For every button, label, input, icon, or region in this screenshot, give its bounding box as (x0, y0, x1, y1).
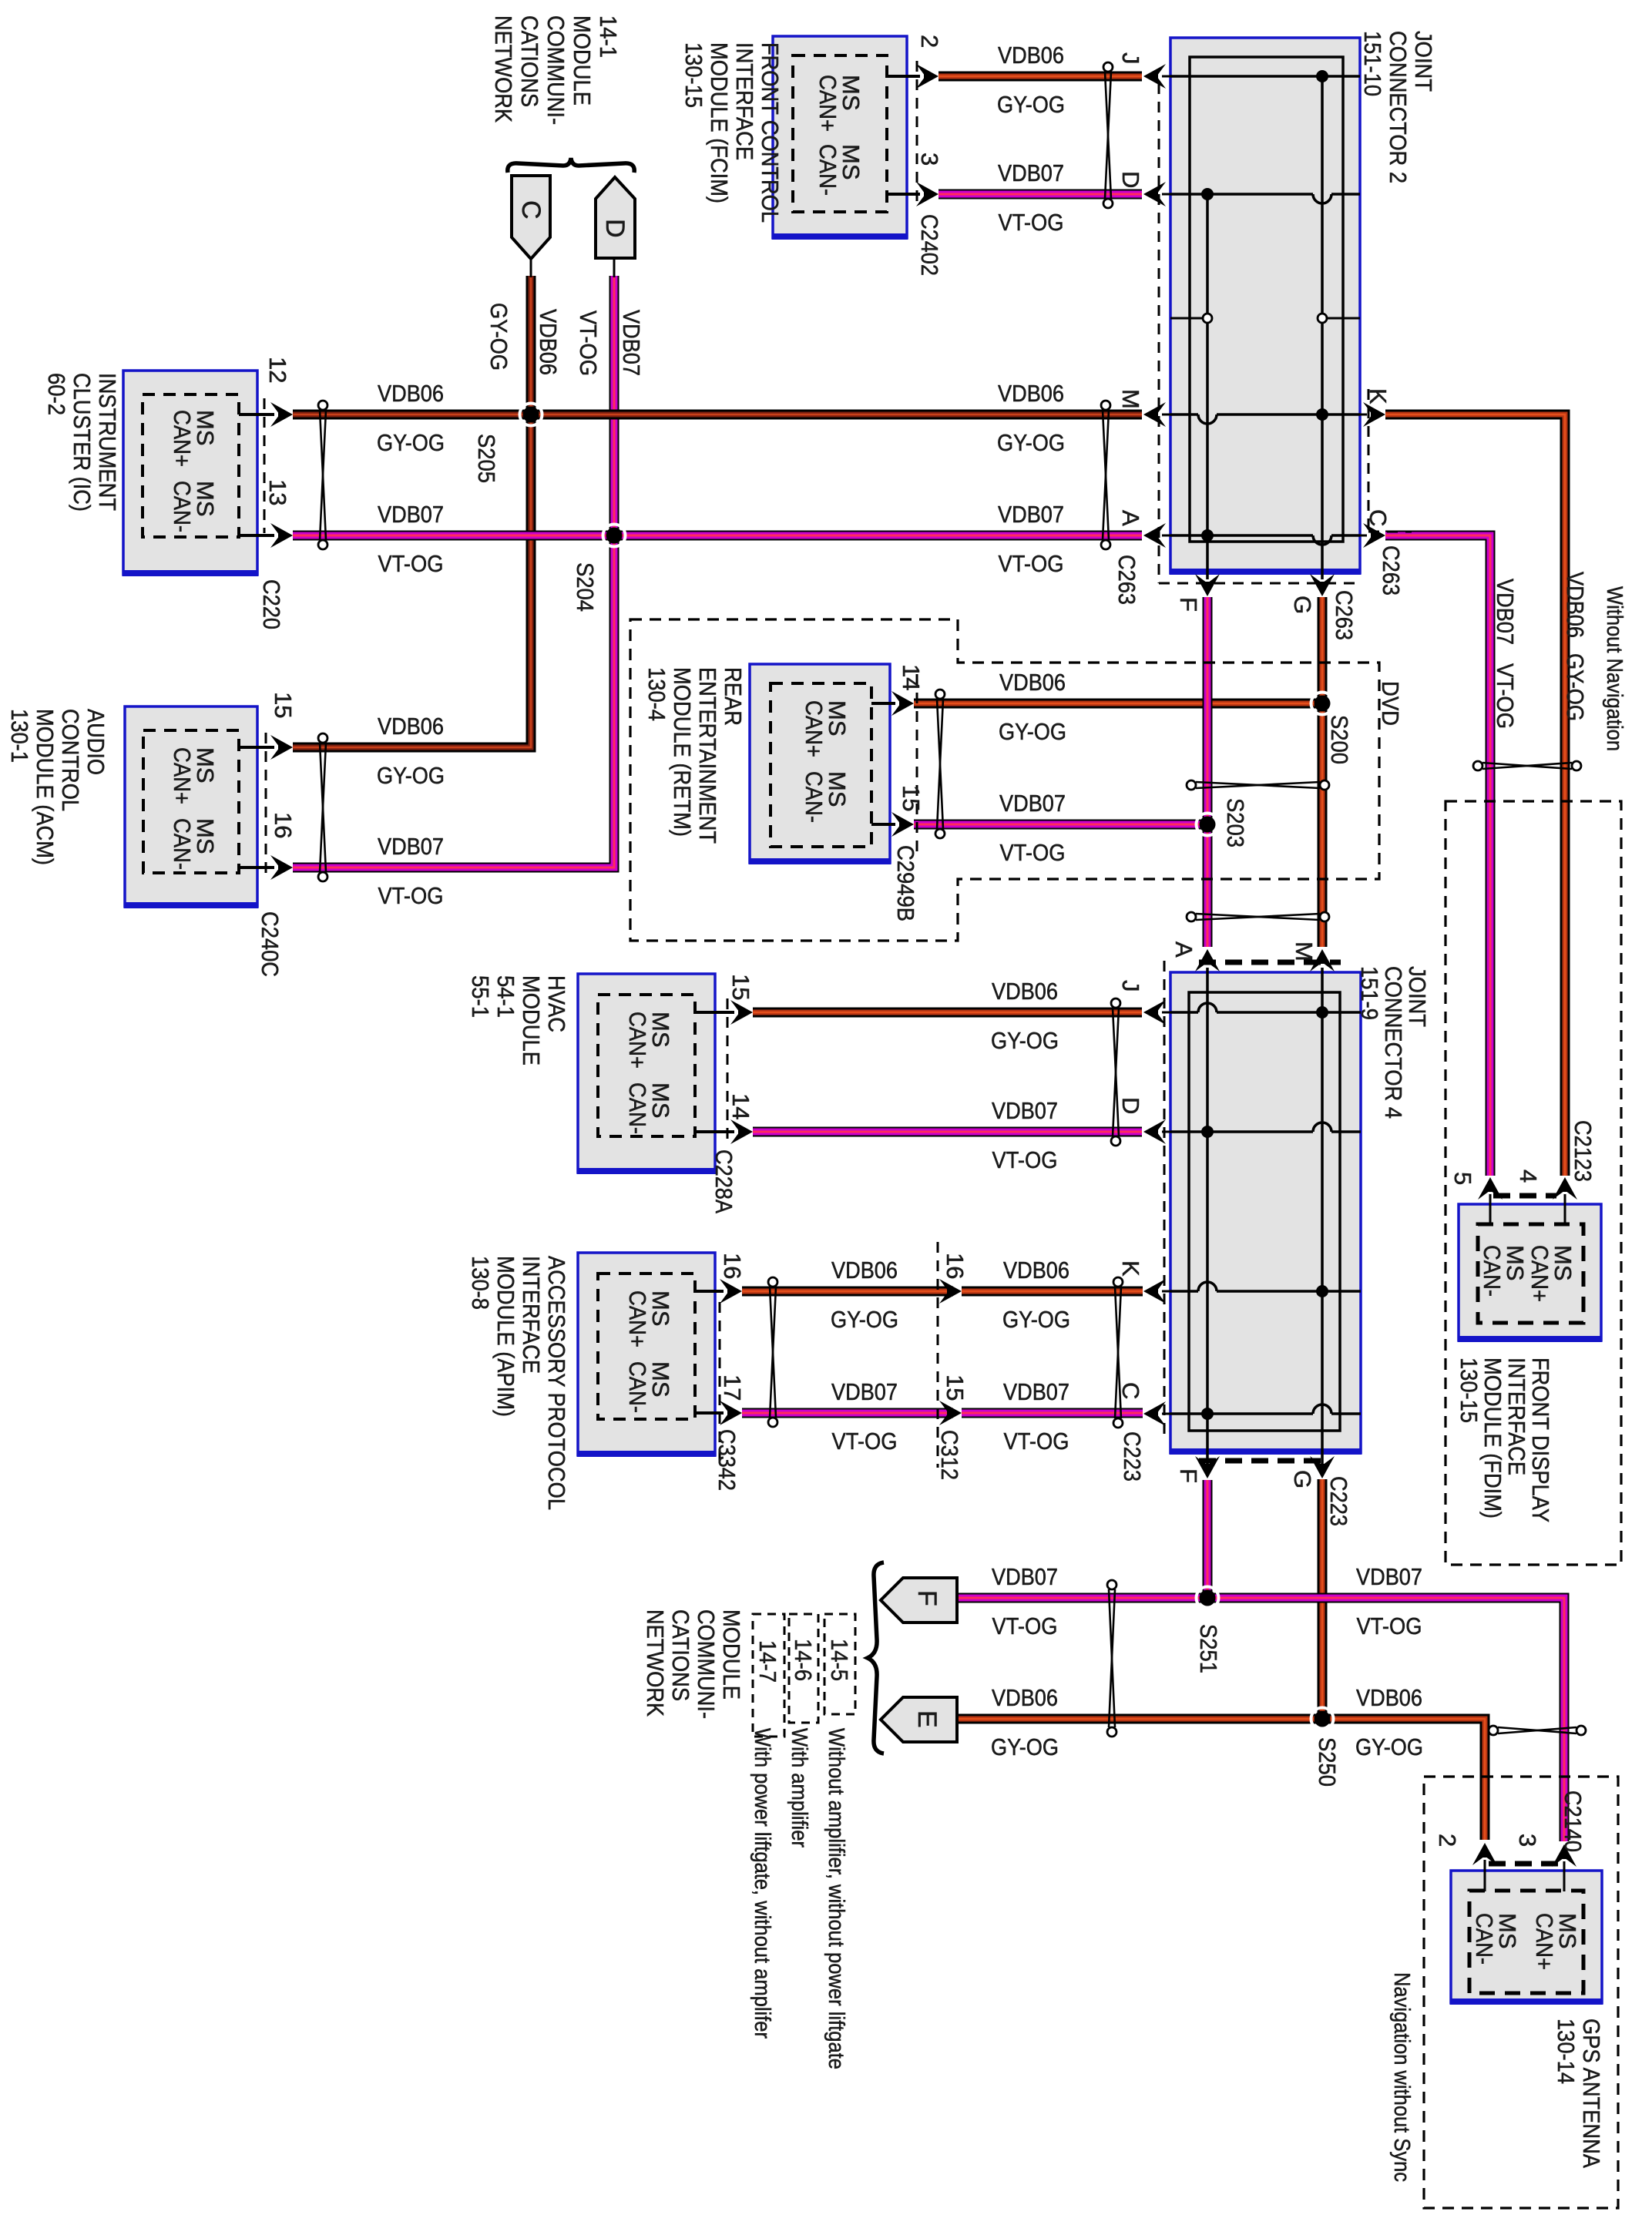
wire VDB07 VT-OG vertical JC2 pin F to JC4 pin A (through S203) (1203, 597, 1213, 947)
JC2 pin D arrow (1143, 182, 1166, 206)
svg-text:GY-OG: GY-OG (1355, 1733, 1423, 1760)
JC4 internal bus line pin C (1170, 1412, 1313, 1415)
JC2 junction dot M-V2 (1316, 408, 1328, 421)
wire VDB06 GY-OG C312 to JC4 pin K (962, 1287, 1143, 1297)
in-line connector symbol at C263 (main bus) (1103, 410, 1109, 540)
svg-text:VDB07: VDB07 (1003, 1378, 1069, 1405)
svg-text:15: 15 (270, 692, 297, 718)
svg-text:VDB07: VDB07 (998, 501, 1064, 528)
JC2 pin G arrow (1310, 574, 1335, 596)
svg-text:F: F (912, 1590, 942, 1606)
splice S204 (603, 525, 626, 547)
JC4 vertical bus V2 (VDB06) (1321, 968, 1324, 1466)
JC4 vertical bus V1 (VDB07) (1206, 968, 1209, 1466)
svg-text:GY-OG: GY-OG (831, 1306, 898, 1333)
svg-text:S250: S250 (1314, 1737, 1341, 1787)
JC4 hop K over V1 (1198, 1282, 1217, 1291)
connector flag E (points left) (881, 1697, 957, 1742)
wire VDB07 VT-OG HVAC pin14 to JC4 pin D (753, 1127, 1142, 1137)
dashed connector line C220 (264, 398, 266, 533)
svg-text:GY-OG: GY-OG (999, 718, 1066, 745)
svg-text:14-6: 14-6 (790, 1639, 817, 1681)
wire VDB07 VT-OG from connector-D flag down through S204 to ACM pin 16 (293, 276, 614, 868)
heavy dashed line C2123 at FDIM (1493, 1193, 1556, 1199)
svg-text:13: 13 (264, 479, 291, 505)
in-line connector symbol at C3342 (APIM) (770, 1287, 776, 1418)
dashed box Without Navigation option (1445, 801, 1621, 1565)
svg-text:J: J (1117, 52, 1144, 65)
svg-text:C2123: C2123 (1570, 1120, 1597, 1182)
in-line connector symbol at C220 (IC) (320, 410, 326, 540)
APIM pin 16 lead/arrow (695, 1290, 724, 1293)
wire VDB06 GY-OG JC2 pin K right and down to FDIM pin 4 (1385, 414, 1565, 1176)
splice S251 (1197, 1587, 1219, 1609)
wire VDB07 VT-OG flag F through S251 to GPS pin 3 (959, 1598, 1564, 1841)
wire VDB07 VT-OG main bus IC pin13 to JC2 pin A (293, 531, 1142, 541)
svg-text:VT-OG: VT-OG (999, 550, 1064, 577)
svg-text:S251: S251 (1195, 1624, 1222, 1673)
svg-text:D: D (1117, 1097, 1144, 1114)
joint connector 2 box (1170, 38, 1360, 573)
IC pin 12 lead/arrow (239, 413, 274, 416)
svg-text:S205: S205 (473, 434, 500, 483)
wire VDB06 GY-OG from connector-C flag down through S205 to ACM pin 15 (293, 276, 531, 747)
brace over flags C and D (508, 158, 634, 173)
in-line connector symbol at C2140 (1498, 1727, 1576, 1733)
svg-text:2: 2 (1434, 1834, 1461, 1847)
svg-text:VDB07: VDB07 (998, 159, 1064, 186)
svg-text:3: 3 (916, 153, 943, 166)
dashed connector line C312 (937, 1242, 939, 1468)
svg-text:VDB06: VDB06 (1562, 572, 1589, 638)
svg-text:S203: S203 (1222, 798, 1249, 847)
svg-text:C: C (516, 200, 546, 220)
dashed connector line C228A (727, 998, 729, 1146)
svg-text:DVD: DVD (1377, 681, 1404, 726)
JC4 pin G arrow (1310, 1456, 1335, 1478)
svg-text:C263: C263 (1331, 590, 1358, 640)
svg-text:C312: C312 (936, 1430, 963, 1480)
svg-text:VDB07: VDB07 (618, 310, 645, 376)
dashed connector line C2949B (916, 674, 918, 854)
JC4 internal bus line pin D (1170, 1130, 1313, 1133)
in-line connector symbol at C228A (HVAC) (1113, 1008, 1119, 1136)
dashed outline RETM / DVD option area (630, 619, 1379, 941)
HVAC pin 15 lead/arrow (695, 1011, 734, 1014)
svg-text:14: 14 (727, 1093, 754, 1119)
thin lead from flag D (613, 258, 616, 277)
HVAC inner connector dashed box (598, 995, 695, 1136)
wire VDB06 GY-OG vertical from JC2 pin G down to JC4 pin M (through S200) (1318, 597, 1328, 947)
IC inner connector dashed box (143, 394, 239, 537)
JC4 pin F arrow (1195, 1456, 1220, 1478)
svg-text:D: D (600, 219, 630, 238)
module box HVAC MODULE (578, 974, 715, 1173)
FCIM pin 2 lead/arrow (887, 75, 920, 78)
svg-text:K: K (1117, 1260, 1144, 1277)
RETM inner connector dashed box (771, 683, 871, 847)
svg-text:17: 17 (719, 1374, 746, 1401)
svg-text:3: 3 (1514, 1834, 1541, 1847)
HVAC pin 14 lead/arrow (695, 1130, 734, 1133)
RETM pin 14 lead/arrow (871, 702, 895, 705)
svg-text:VDB07: VDB07 (992, 1563, 1058, 1590)
module box GPS ANTENNA (1451, 1871, 1602, 2003)
dashed connector line C263 right of JC2 (1368, 389, 1370, 532)
svg-text:Navigation without Sync: Navigation without Sync (1389, 1972, 1414, 2182)
wire VDB06 GY-OG main bus IC pin12 to JC2 pin M (293, 410, 1142, 420)
JC2 junction dot J-V2 (1316, 70, 1328, 82)
svg-text:GY-OG: GY-OG (1002, 1306, 1070, 1333)
JC2 hop M over V1 (1198, 414, 1217, 424)
svg-text:VDB06: VDB06 (992, 978, 1058, 1005)
GPS pin 3 arrow and lead (1552, 1844, 1576, 1867)
in-line connector symbol on flag F/E wires (1109, 1589, 1115, 1727)
JC2 junction dot D-V1 (1201, 188, 1214, 200)
in-line connector symbol at C2123 (1482, 763, 1572, 769)
svg-text:S204: S204 (572, 562, 599, 612)
C312 pin 15 arrow (939, 1401, 962, 1425)
JC4 pin C arrow (1143, 1401, 1166, 1426)
svg-text:GY-OG: GY-OG (991, 1733, 1059, 1760)
in-line connector symbol at C240C (ACM) (320, 743, 326, 872)
module box ACCESSORY PROTOCOL INTERFACE MODULE (APIM) (578, 1253, 715, 1455)
wire VDB06 GY-OG flag E through S250 to GPS pin 2 (959, 1719, 1485, 1840)
JC2 pin F arrow (1195, 574, 1220, 596)
svg-text:K: K (1365, 388, 1392, 404)
JC4 junction dot K-V2 (1316, 1285, 1328, 1297)
svg-text:VT-OG: VT-OG (575, 310, 602, 376)
connector flag C (points down) (512, 176, 550, 259)
splice S250 (1311, 1708, 1334, 1730)
svg-text:VDB06: VDB06 (992, 1684, 1058, 1711)
svg-text:VT-OG: VT-OG (992, 1613, 1058, 1639)
svg-text:VDB07: VDB07 (378, 833, 444, 860)
svg-text:VDB07: VDB07 (378, 501, 444, 528)
svg-text:Without Navigation: Without Navigation (1602, 586, 1627, 751)
in-line connector symbol at C2949B (RETM) (937, 699, 943, 829)
JC2 connector-half stub right (1327, 317, 1360, 320)
svg-text:C3342: C3342 (714, 1429, 740, 1491)
svg-text:14-7: 14-7 (754, 1640, 781, 1683)
svg-text:C2402: C2402 (916, 214, 943, 276)
JC4 internal bus line pin J (1170, 1011, 1198, 1014)
JC2 connector-half circle V2 (1318, 314, 1327, 323)
legend dashed box 14-7 (753, 1614, 784, 1737)
svg-text:A: A (1170, 941, 1197, 958)
brace left of flags F and E (868, 1562, 884, 1753)
svg-text:GY-OG: GY-OG (991, 1027, 1059, 1054)
svg-text:2: 2 (916, 35, 943, 48)
APIM pin 17 lead/arrow (695, 1411, 724, 1415)
svg-text:VT-OG: VT-OG (1000, 839, 1066, 866)
JC2 vertical bus V2 (VDB06) (1321, 76, 1324, 579)
svg-text:VT-OG: VT-OG (992, 1146, 1058, 1173)
svg-text:With amplifier: With amplifier (787, 1728, 811, 1847)
svg-text:C240C: C240C (257, 911, 284, 977)
JC2 internal bus line pin A (1170, 534, 1313, 537)
svg-text:16: 16 (270, 812, 297, 838)
svg-text:C223: C223 (1119, 1431, 1146, 1482)
svg-text:VT-OG: VT-OG (378, 550, 444, 577)
ACM pin 15 lead/arrow (239, 746, 274, 749)
svg-text:VDB07: VDB07 (999, 790, 1066, 817)
svg-text:VDB06: VDB06 (378, 380, 444, 407)
svg-text:16: 16 (719, 1253, 746, 1279)
svg-text:GY-OG: GY-OG (485, 303, 512, 371)
svg-text:VT-OG: VT-OG (1492, 663, 1519, 729)
svg-text:F: F (1175, 597, 1202, 612)
svg-text:C223: C223 (1325, 1476, 1352, 1526)
svg-text:M: M (1291, 941, 1318, 961)
svg-text:G: G (1289, 1470, 1316, 1488)
heavy dashed line C223 at JC4 bottom (1199, 1458, 1330, 1464)
connector flag F (points left) (881, 1578, 957, 1623)
JC4 hop D over V2 (1313, 1123, 1331, 1132)
heavy dashed line C223 at JC4 top (1199, 960, 1341, 965)
svg-text:C: C (1365, 509, 1392, 526)
JC4 pin J arrow (1143, 1000, 1166, 1025)
JC2 internal bus line pin D (1170, 193, 1313, 196)
svg-text:GY-OG: GY-OG (1562, 653, 1589, 721)
JC2 vertical bus V1 (VDB07) (1206, 194, 1209, 579)
svg-text:GY-OG: GY-OG (997, 429, 1065, 456)
splice S203 (1197, 814, 1219, 836)
JC2 pin J arrow (1143, 64, 1166, 89)
in-line connector symbol between F and G wires upper (C263) (1196, 782, 1320, 788)
svg-text:VDB06: VDB06 (831, 1257, 898, 1284)
wire VDB06 GY-OG RETM pin14 to S200 (914, 699, 1322, 709)
wire VDB06 GY-OG vertical from JC4 pin G down to S250 (1318, 1479, 1328, 1719)
legend dashed box 14-5 (824, 1614, 855, 1714)
wire VDB06 GY-OG APIM pin16 to C312 (742, 1287, 953, 1297)
JC4 hop J over V1 (1198, 1003, 1217, 1012)
joint connector 4 box (1170, 972, 1361, 1453)
svg-text:5: 5 (1449, 1172, 1476, 1185)
svg-text:G: G (1289, 596, 1316, 614)
svg-text:A: A (1117, 510, 1144, 526)
JC2 hop A over V2 (1313, 535, 1331, 545)
svg-text:16: 16 (942, 1253, 969, 1279)
svg-text:F: F (1175, 1468, 1202, 1483)
GPS inner connector heavy dashed box (1469, 1891, 1583, 1993)
svg-text:D: D (1117, 171, 1144, 188)
in-line connector symbol at C2402 (FCIM) (1105, 72, 1111, 199)
svg-text:GY-OG: GY-OG (997, 91, 1065, 118)
svg-text:C2949B: C2949B (892, 845, 919, 921)
svg-text:14: 14 (898, 664, 925, 690)
svg-text:VDB06: VDB06 (998, 380, 1064, 407)
FDIM pin 5 arrow and lead (1478, 1177, 1503, 1200)
svg-text:15: 15 (942, 1374, 969, 1401)
wire VDB06 GY-OG HVAC pin15 to JC4 pin J (753, 1008, 1142, 1018)
wire VDB07 VT-OG vertical JC4 pin F to S251 (1203, 1480, 1213, 1598)
JC4 pin A arrow (1195, 949, 1220, 972)
connector flag D (points up) (596, 177, 635, 258)
JC2 inner rectangle (1190, 57, 1343, 542)
svg-text:VT-OG: VT-OG (832, 1428, 898, 1455)
APIM inner connector dashed box (598, 1274, 695, 1419)
wire VDB07 VT-OG C312 to JC4 pin C (962, 1408, 1143, 1418)
JC4 pin M arrow (1310, 949, 1335, 972)
module box FRONT DISPLAY INTERFACE MODULE (FDIM) (1459, 1204, 1601, 1341)
svg-text:VDB06: VDB06 (1356, 1684, 1422, 1711)
wire VDB07 VT-OG JC2 pin C right and down to FDIM pin 5 (1385, 535, 1490, 1176)
JC2 internal bus line pin M (1170, 413, 1198, 416)
svg-text:VT-OG: VT-OG (999, 209, 1064, 236)
svg-text:14-5: 14-5 (826, 1639, 853, 1681)
JC2 connector-half circle V1 (1203, 314, 1212, 323)
svg-text:VDB07: VDB07 (992, 1097, 1058, 1124)
JC2 hop D over V2 (1313, 194, 1331, 203)
GPS pin 2 arrow and lead (1472, 1843, 1497, 1865)
JC2 pin K arrow (1360, 414, 1367, 416)
svg-text:VDB06: VDB06 (999, 669, 1066, 696)
svg-text:15: 15 (898, 785, 925, 811)
JC4 inner rectangle (1189, 992, 1340, 1431)
legend dashed box 14-6 (789, 1614, 818, 1723)
svg-text:E: E (912, 1710, 942, 1728)
FDIM inner connector dashed box (1478, 1224, 1583, 1323)
JC2 pin M arrow (1143, 402, 1166, 427)
wire VDB07 VT-OG FCIM pin3 to JC2 pin D (938, 190, 1142, 200)
JC2 pin C arrow (1360, 535, 1367, 537)
svg-text:VDB06: VDB06 (998, 42, 1064, 69)
module box FRONT CONTROL INTERFACE MODULE (FCIM) (773, 36, 907, 238)
svg-text:C2140: C2140 (1560, 1790, 1587, 1852)
dashed connector line C240C (265, 733, 267, 880)
svg-text:M: M (1117, 389, 1144, 409)
JC4 internal bus line pin K (1170, 1290, 1198, 1293)
JC2 junction dot A-V1 (1201, 529, 1214, 542)
wire VDB06 GY-OG FCIM pin2 to JC2 pin J (938, 72, 1142, 82)
ACM pin 16 lead/arrow (239, 866, 274, 869)
in-line connector symbol at C223 (JC4 left) (1115, 1287, 1121, 1418)
JC4 junction dot J-V2 (1316, 1006, 1328, 1019)
IC pin 13 lead/arrow (239, 534, 274, 537)
ACM inner connector dashed box (143, 730, 239, 873)
svg-text:12: 12 (264, 357, 291, 383)
FCIM pin 3 lead/arrow (887, 193, 920, 196)
svg-text:4: 4 (1515, 1170, 1542, 1183)
svg-text:VT-OG: VT-OG (1004, 1428, 1069, 1455)
svg-text:VDB06: VDB06 (535, 309, 562, 375)
svg-text:C263: C263 (1378, 545, 1405, 596)
svg-text:C: C (1117, 1382, 1144, 1399)
JC4 junction dot C-V1 (1201, 1408, 1214, 1420)
svg-text:VT-OG: VT-OG (378, 882, 444, 909)
svg-text:S200: S200 (1326, 715, 1353, 764)
JC4 junction dot D-V1 (1201, 1126, 1214, 1138)
svg-text:J: J (1117, 980, 1144, 992)
svg-text:VDB07: VDB07 (1356, 1563, 1422, 1590)
splice S200 (1311, 693, 1334, 715)
svg-text:GY-OG: GY-OG (377, 429, 445, 456)
svg-text:C220: C220 (258, 579, 285, 629)
FDIM pin 4 arrow and lead (1553, 1177, 1577, 1200)
svg-text:VT-OG: VT-OG (1357, 1613, 1422, 1639)
svg-text:VDB06: VDB06 (378, 713, 444, 740)
JC2 connector-half stub left (1170, 317, 1203, 320)
svg-text:VDB06: VDB06 (1003, 1257, 1069, 1284)
RETM pin 15 lead/arrow (871, 823, 895, 826)
svg-text:GY-OG: GY-OG (377, 762, 445, 789)
dashed box Navigation without Sync option (1424, 1777, 1618, 2208)
svg-text:C228A: C228A (710, 1149, 737, 1213)
JC2 pin A arrow (1143, 523, 1166, 548)
svg-text:C263: C263 (1113, 555, 1140, 605)
dashed connector line C2402 (916, 61, 918, 209)
svg-text:With power liftgate, without a: With power liftgate, without amplifer (750, 1728, 774, 2039)
FCIM inner connector dashed box (793, 55, 887, 212)
C312 pin 16 arrow (939, 1279, 962, 1304)
module box AUDIO CONTROL MODULE (ACM) (125, 706, 257, 907)
JC4 pin K arrow (1143, 1279, 1166, 1304)
heavy dashed line C2140 at GPS (1489, 1861, 1558, 1867)
dashed connector line C223 left of JC4 (1163, 961, 1166, 1435)
JC4 hop C over V2 (1313, 1404, 1331, 1414)
svg-text:15: 15 (727, 974, 754, 1000)
splice S205 (520, 404, 542, 426)
svg-text:VDB07: VDB07 (1492, 579, 1519, 645)
dashed connector line C3342 (719, 1302, 721, 1464)
svg-text:VDB07: VDB07 (831, 1378, 898, 1405)
thin lead from flag C (530, 259, 532, 277)
JC4 pin D arrow (1143, 1119, 1166, 1144)
dashed connector line C263 left of JC2 (1158, 83, 1160, 583)
wire VDB07 VT-OG APIM pin17 to C312 (742, 1408, 953, 1418)
module box INSTRUMENT CLUSTER (IC) (123, 371, 257, 575)
svg-text:Without amplifier, without pow: Without amplifier, without power liftgat… (824, 1728, 848, 2069)
JC2 internal bus line pin J (1170, 75, 1360, 78)
wire VDB07 VT-OG RETM pin15 to S203 (914, 820, 1207, 830)
module box REAR ENTERTAINMENT MODULE (RETM) (750, 664, 890, 863)
in-line connector symbol between F and G wires lower (C223) (1196, 914, 1320, 920)
